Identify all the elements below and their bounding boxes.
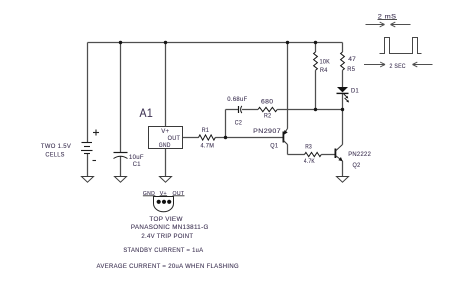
transistor Q1 collector line: [284, 141, 288, 145]
resistor R5: [341, 52, 345, 70]
wire A1 V+ pin lead: [165, 43, 167, 127]
svg-text:C2: C2: [235, 120, 242, 127]
junction Q1 emitter on rail: [286, 41, 289, 44]
svg-text:PN2907: PN2907: [253, 128, 281, 135]
transistor Q2 emitter arrow (NPN): [338, 157, 342, 161]
underline OUT: [173, 195, 185, 197]
package pin dot 3: [167, 200, 171, 204]
svg-text:GND: GND: [159, 142, 171, 149]
svg-text:Q1: Q1: [270, 143, 278, 150]
resistor R3: [305, 152, 322, 156]
svg-text:680: 680: [261, 98, 273, 105]
pulse waveform: [380, 38, 422, 54]
svg-text:V+: V+: [161, 128, 169, 135]
arrow left pointing right (2 mS): [366, 22, 385, 27]
package pin dot 1: [157, 200, 161, 204]
wire Q1 collector to R3: [288, 154, 305, 156]
transistor Q1 base bar: [282, 132, 284, 143]
resistor R4: [314, 52, 318, 70]
svg-text:Q2: Q2: [353, 162, 361, 169]
svg-text:10K: 10K: [320, 58, 331, 65]
svg-text:CELLS: CELLS: [45, 152, 65, 159]
svg-text:R5: R5: [347, 66, 355, 73]
transistor Q1 emitter arrow (PNP): [284, 130, 288, 135]
wire battery bottom lead: [87, 154, 89, 177]
svg-text:4.7M: 4.7M: [201, 143, 215, 150]
arrow left pointing right (2 SEC): [364, 62, 385, 67]
wire battery top lead: [87, 43, 89, 143]
wire R4 bottom lead: [315, 70, 317, 109]
wire A1 OUT to R1: [183, 137, 199, 139]
svg-text:TWO 1.5V: TWO 1.5V: [41, 143, 71, 150]
wire R5 to D1 anode: [342, 70, 344, 87]
underline GND: [143, 195, 155, 197]
package outline MN13811 top view: [154, 197, 174, 212]
junction R4 on rail: [314, 41, 317, 44]
wire jog to C2: [226, 109, 239, 111]
wire R3 to Q2 base: [321, 154, 335, 156]
ground A1: [160, 177, 172, 183]
svg-text:R3: R3: [305, 143, 312, 150]
transistor Q2 emitter line: [336, 156, 343, 162]
wire Q1 emitter to V+ rail: [287, 43, 289, 129]
transistor Q2 base bar: [334, 149, 336, 159]
capacitor C1: [114, 152, 128, 154]
package pin dot 2: [162, 200, 166, 204]
LED D1 cathode bar: [337, 93, 349, 94]
LED D1 triangle: [337, 87, 348, 92]
resistor R2: [258, 107, 277, 111]
arrow right pointing left (2 SEC): [413, 62, 433, 67]
svg-text:47: 47: [348, 56, 356, 63]
wire R2 to Q2 collector node: [277, 109, 342, 111]
svg-text:STANDBY CURRENT = 1uA: STANDBY CURRENT = 1uA: [123, 247, 203, 254]
battery B1 plates: [81, 143, 93, 154]
svg-text:R4: R4: [320, 67, 328, 74]
svg-text:0.68uF: 0.68uF: [227, 96, 247, 103]
svg-text:R1: R1: [202, 127, 209, 134]
underline V+: [160, 195, 167, 197]
LED D1 light arrow 2: [345, 98, 348, 101]
junction C1 on rail: [119, 41, 122, 44]
svg-text:2.4V TRIP POINT: 2.4V TRIP POINT: [141, 233, 193, 240]
wire C1 bottom lead: [120, 157, 122, 177]
transistor Q1 emitter line: [284, 129, 287, 134]
svg-text:D1: D1: [351, 88, 359, 95]
battery plus sign: [93, 130, 99, 136]
op-amp U1 box (A1 voltage detector): [149, 127, 183, 149]
svg-text:PANASONIC MN13811-G: PANASONIC MN13811-G: [131, 224, 209, 231]
wire Q1 collector vertical: [287, 145, 289, 155]
junction Q2 collector node: [341, 108, 344, 111]
svg-text:AVERAGE CURRENT = 20uA WHEN FL: AVERAGE CURRENT = 20uA WHEN FLASHING: [97, 263, 240, 270]
capacitor C2: [238, 106, 240, 113]
svg-text:2 SEC: 2 SEC: [390, 63, 406, 70]
wire Q2 collector vertical: [342, 110, 344, 145]
arrow right pointing left (2 mS): [391, 22, 411, 27]
ground battery: [82, 177, 94, 183]
junction node A: [224, 136, 227, 139]
wire R4 top lead: [315, 43, 317, 53]
svg-text:R2: R2: [264, 113, 271, 120]
svg-text:PN2222: PN2222: [348, 151, 371, 158]
resistor R1: [199, 135, 216, 140]
ground C1: [115, 177, 127, 183]
wire C1 top lead: [120, 43, 122, 153]
svg-text:4.7K: 4.7K: [304, 158, 315, 165]
ground Q2: [337, 177, 349, 183]
wire R1 to node A: [215, 137, 225, 139]
battery minus sign: [93, 160, 97, 162]
wire R5 top lead: [342, 43, 344, 53]
transistor Q2 collector line: [336, 145, 343, 152]
wire top rail V+: [88, 42, 343, 44]
svg-text:C1: C1: [133, 161, 141, 168]
wire node A to Q1 base: [226, 137, 284, 139]
dimension line under 2 mS: [378, 19, 398, 21]
wire Q2 emitter to ground: [342, 161, 344, 177]
wire D1 cathode to node: [342, 93, 344, 110]
junction R4 bottom: [314, 108, 317, 111]
junction A1 on rail: [164, 41, 167, 44]
svg-text:TOP VIEW: TOP VIEW: [149, 216, 183, 223]
wire A1 GND pin lead: [165, 149, 167, 177]
wire C2 to R2: [242, 109, 258, 111]
svg-text:A1: A1: [140, 108, 154, 120]
LED D1 light arrow 1: [344, 94, 347, 97]
wire node A up jog: [225, 110, 227, 138]
